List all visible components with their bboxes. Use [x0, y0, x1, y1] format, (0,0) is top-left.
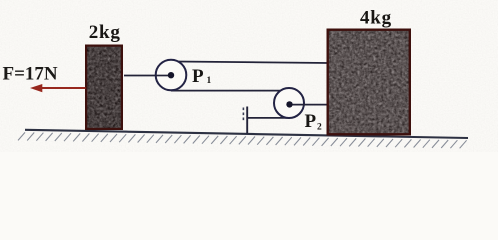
pulley P1 axle line: [156, 75, 171, 77]
wire: upper string P1 to 4kg block: [176, 62, 329, 64]
svg-text:2: 2: [317, 123, 322, 133]
pulley P1 axle dot: [168, 72, 174, 78]
svg-text:F=17N: F=17N: [3, 64, 58, 85]
block 4kg body: [327, 29, 412, 136]
svg-text:2kg: 2kg: [89, 22, 121, 43]
anchor hatch dashes: [242, 108, 244, 122]
pulley P1: [156, 60, 187, 91]
wire: axle string P2 to 4kg block: [289, 104, 328, 106]
svg-text:P: P: [305, 111, 317, 132]
block 2kg body: [85, 45, 123, 131]
ground: [25, 130, 468, 138]
ground hatching: [18, 132, 467, 148]
pulley P2: [274, 88, 304, 118]
svg-text:1: 1: [207, 76, 212, 86]
wire: string from 2kg block to pulley P1 axle: [124, 75, 171, 77]
wire: lower string P1 to P2: [171, 90, 280, 92]
wire: string P2 to ground anchor: [247, 117, 290, 119]
svg-text:4kg: 4kg: [360, 8, 392, 29]
ground anchor post: [246, 107, 248, 134]
pulley P2 axle dot: [286, 101, 292, 107]
force arrow F: [41, 87, 86, 89]
svg-text:P: P: [192, 66, 204, 87]
